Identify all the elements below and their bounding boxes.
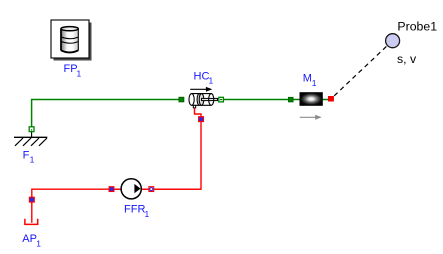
- port HC1 bottom (small square): [193, 105, 195, 108]
- port FFR1 left (blue square, red border): [109, 187, 114, 192]
- port FFR1 right (hollow square, red border, blue ring): [149, 187, 154, 192]
- svg-text:1: 1: [312, 78, 317, 88]
- wire red bottom rail (AP1 to FFR1): [32, 189, 201, 223]
- arrow gray under M1: [300, 115, 322, 120]
- port HC1 flange_b (green hollow square): [219, 97, 224, 102]
- svg-text:FFR: FFR: [124, 204, 145, 216]
- port HC1 flange_a (green filled square): [179, 97, 184, 102]
- label FFR1: [124, 204, 150, 219]
- pump FFR1 triangle: [134, 184, 140, 193]
- label AP1: [22, 233, 41, 248]
- pump FFR1 circle: [121, 179, 141, 199]
- cylinder HC1: [189, 94, 218, 106]
- svg-text:1: 1: [209, 76, 214, 86]
- svg-text:FP: FP: [64, 63, 78, 75]
- svg-text:Probe1: Probe1: [397, 20, 437, 34]
- dashed measurement line M1 to Probe1: [334, 46, 387, 96]
- svg-text:F: F: [23, 149, 30, 161]
- svg-text:s, v: s, v: [397, 52, 417, 66]
- tank AP1: [25, 219, 38, 225]
- label HC1: [194, 70, 214, 85]
- support F1: [14, 132, 47, 146]
- svg-text:1: 1: [30, 155, 35, 165]
- probe Probe1 circle: [386, 34, 400, 48]
- svg-text:M: M: [303, 73, 312, 85]
- wire red junction down to bottom rail: [110, 121, 201, 189]
- block FP1 database-cylinder icon: [61, 27, 78, 53]
- port M1 flange_a (green filled square): [288, 97, 293, 102]
- svg-text:1: 1: [145, 209, 150, 219]
- svg-text:AP: AP: [22, 233, 37, 245]
- port F1 flange (green square): [29, 127, 34, 132]
- svg-text:HC: HC: [194, 70, 210, 82]
- svg-text:1: 1: [36, 239, 41, 249]
- wire green F1 to HC1: [32, 100, 180, 128]
- label F1: [23, 149, 35, 164]
- port M1 ctr (red square): [328, 96, 334, 102]
- mass M1 (black box with radial highlight): [300, 93, 322, 106]
- label M1: [303, 73, 317, 88]
- wire red HC1 down to junction: [195, 108, 202, 117]
- junction AP1 (blue square, red border): [29, 197, 34, 202]
- label FP1: [64, 63, 82, 78]
- arrow above HC1: [190, 87, 212, 92]
- wire green HC1 to M1: [223, 99, 288, 101]
- block FP1 box: [51, 20, 89, 58]
- svg-text:1: 1: [77, 69, 82, 79]
- junction HC1/FFR (blue square, red border): [199, 117, 204, 122]
- wire green M1 stubs: [293, 99, 300, 101]
- block FP1 shadow: [54, 23, 92, 61]
